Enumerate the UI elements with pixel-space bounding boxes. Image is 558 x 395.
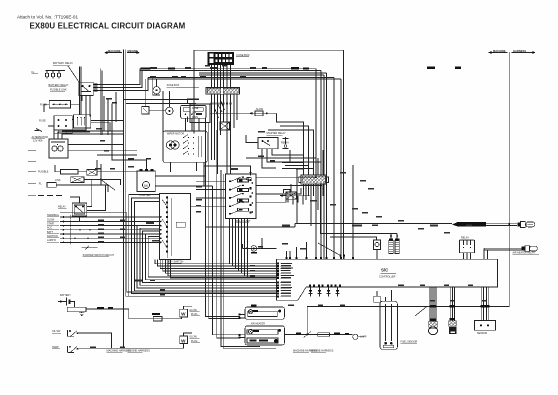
wire: pointer to relay [68, 66, 79, 82]
label: alternator [32, 136, 49, 143]
wire: key switch row BATT [47, 231, 162, 236]
wire: controller feed row 6 [244, 219, 246, 276]
relay R1 (battery relay) [79, 82, 94, 95]
svg-text:LINK: LINK [55, 179, 61, 182]
glow plug W1 [180, 306, 192, 317]
label: W1 [189, 309, 200, 316]
starter relay contacts right [283, 137, 289, 149]
svg-text:HARNESS: HARNESS [513, 49, 526, 53]
controller bottom pin row [309, 285, 341, 287]
wire: bus line 4 [148, 78, 341, 80]
svg-text:GLOW: GLOW [189, 309, 197, 312]
svg-text:RELAY: RELAY [461, 237, 469, 240]
wire: relay to bus [93, 69, 140, 85]
svg-text:ENGINE HARNESS: ENGINE HARNESS [128, 350, 151, 353]
svg-text:CONTROLLER: CONTROLLER [379, 276, 396, 279]
wire: vertical x=316 [315, 69, 317, 260]
wire: top loop left vertical x=194 [193, 50, 195, 133]
wire: pressure switch hook cluster [280, 189, 310, 204]
svg-text:STARTER SWITCH CIRCUIT: STARTER SWITCH CIRCUIT [83, 254, 115, 257]
wiper motor assembly WM1 [163, 131, 207, 162]
wire: controller feed row 4 [238, 219, 240, 271]
sensor box SN3 [475, 321, 496, 335]
label: relay output marks [94, 84, 98, 92]
wire: HC top feeds [246, 113, 323, 170]
svg-text:MACHINE: MACHINE [493, 49, 506, 53]
wire: B1 links [71, 103, 80, 105]
sensor square SN2 [449, 327, 457, 334]
wire: machine/engine harness divider (left) [122, 50, 124, 348]
wire: key switch row GLOW [47, 218, 162, 223]
svg-text:TEMP: TEMP [52, 346, 59, 349]
wire: CN3 right [84, 180, 121, 185]
label: extra wire code blobs [90, 65, 487, 348]
label: key row junction dots [74, 221, 97, 239]
wire: center bundle v1 [206, 118, 241, 317]
controller left pin squares [277, 263, 279, 298]
diode D2 [318, 287, 322, 297]
pump solenoid PM1 [389, 234, 393, 254]
shielded cable segment [452, 222, 486, 227]
wire: AH2 left stubs [238, 334, 245, 339]
label: relay unit [236, 220, 251, 223]
svg-text:IGNITION: IGNITION [47, 235, 58, 238]
svg-text:AIR HEATER: AIR HEATER [251, 323, 265, 326]
svg-text:SENSOR: SENSOR [477, 332, 487, 335]
svg-text:FUEL SENSOR: FUEL SENSOR [401, 340, 418, 343]
svg-text:ENGINE HARNESS: ENGINE HARNESS [311, 349, 334, 352]
lamp H2 (circle) [166, 107, 173, 114]
relay R2 inner box + ties [74, 180, 105, 214]
label: small wire codes [96, 128, 472, 250]
label: machine/engine harness bottom [107, 350, 151, 353]
solenoid valve SV1 [374, 240, 381, 259]
wire: relay unit right outputs [256, 176, 316, 178]
svg-text:W: W [181, 312, 186, 317]
svg-text:START: START [47, 222, 55, 225]
diode D1 [309, 287, 313, 297]
svg-text:ACC: ACC [47, 227, 52, 230]
wire: cable to plug1 [486, 222, 517, 224]
wire: staircase wire 4 [134, 202, 276, 291]
wire: bus line 1 [140, 68, 316, 70]
horn H1 (circle) [153, 79, 160, 94]
connector CB1 (hatched) [429, 321, 437, 327]
wire: AH1 left stubs [238, 314, 245, 320]
starter motor M1 [137, 169, 155, 192]
wire: vertical x=321 [320, 70, 322, 259]
component B1 (fuse holder) [49, 101, 70, 109]
wire: starter feeds [123, 160, 146, 169]
wire: staircase wire 3 [137, 226, 276, 289]
wire: strip drop jogs [215, 100, 225, 118]
wire: fuse box drops [211, 64, 213, 87]
wire: center bundle v5 [221, 170, 260, 346]
wire: sensor cable y=226 [206, 226, 296, 228]
wire: controller feed row 5 [241, 219, 243, 274]
label: blobs on strip drops [172, 76, 232, 105]
connector CB2 (hatched) [449, 321, 456, 327]
label: RT1 [460, 237, 474, 240]
svg-text:SLOW: SLOW [256, 108, 264, 111]
glow indicator GI1 [353, 334, 367, 339]
svg-text:LAMP R: LAMP R [47, 239, 56, 242]
wire: key switch row IGNITION [47, 235, 162, 240]
wire: diagonal jog [100, 179, 115, 190]
plug P1 [517, 221, 534, 227]
wire: staircase wire 8 [148, 237, 276, 278]
wire: upper-left mesh additions [62, 92, 199, 185]
svg-text:FL: FL [39, 183, 43, 186]
svg-text:W: W [181, 338, 186, 343]
svg-text:PLUG: PLUG [191, 313, 198, 316]
sensor round SN1 [429, 327, 438, 335]
svg-text:BATTERY RELAY: BATTERY RELAY [53, 62, 73, 65]
wire: center bundle v4 [217, 130, 240, 338]
svg-text:FUSE BOX: FUSE BOX [237, 53, 250, 57]
wire: RB1 pins [262, 149, 276, 168]
label: under-rows caption [83, 254, 115, 257]
glow plug W2 [180, 333, 192, 348]
controller S/C box [276, 259, 497, 300]
svg-text:BATTERY: BATTERY [60, 294, 71, 297]
inline fuse F3 [153, 316, 162, 321]
svg-text:MAIN: MAIN [192, 116, 198, 119]
wire: pump feeds [321, 233, 398, 235]
wire: HC top feed horizontals [282, 163, 314, 224]
diode D3 [327, 287, 331, 297]
battery BAT1 [58, 294, 74, 307]
wire: center bundle v6 [223, 174, 276, 348]
connector strip CN1 (hatched) [206, 88, 240, 95]
svg-text:PLUG: PLUG [191, 340, 198, 343]
connector CN3 [71, 177, 84, 183]
label: TB1 [401, 340, 418, 343]
wire: B3b outputs [91, 120, 124, 122]
air heater AH2 [245, 326, 284, 345]
wire: bundle1 verticals [429, 287, 431, 321]
wire: RT1 pins to controller [463, 253, 465, 260]
label: W2 [189, 336, 200, 343]
relay R2 (safety relay) [58, 203, 87, 216]
wire: B2 links right [72, 119, 73, 121]
wire: key switch row LAMP R [47, 239, 162, 244]
svg-text:FUSIBLE: FUSIBLE [38, 171, 49, 174]
label: HC bottom junction dots [303, 188, 324, 190]
relay unit RU1 [226, 174, 257, 219]
controller top stubs [285, 251, 287, 259]
label: wire gauge marks on bus [141, 66, 462, 69]
svg-text:ALTERNATOR: ALTERNATOR [32, 136, 49, 139]
wire: vertical x=326.5 [326, 73, 328, 259]
component B2 (terminal block) [54, 116, 72, 134]
label: P2 underline [513, 252, 540, 255]
wire: link row [78, 171, 87, 173]
relay unit coils [238, 177, 254, 212]
label: F3 [152, 313, 160, 315]
wire: diagonal off sensor bus [415, 306, 427, 316]
label: harness divider arrows top left [104, 49, 140, 54]
svg-text:FUSE: FUSE [192, 107, 199, 110]
svg-text:TERMINAL: TERMINAL [47, 214, 60, 217]
wire: cluster ties [149, 109, 166, 111]
fusible link FL2 [67, 307, 86, 312]
sender SW3 (water temp) [67, 346, 78, 353]
wire: staircase wire 1 [143, 231, 277, 283]
label: dashes row [38, 195, 62, 197]
wire: key switch to relay unit [196, 180, 226, 182]
wire: controller feed row 7 [247, 219, 249, 279]
wire: strip extra drops [233, 94, 235, 128]
svg-text:M: M [144, 183, 147, 188]
svg-text:MACHINE: MACHINE [108, 49, 121, 53]
label: relay labels left [49, 84, 69, 92]
label: controller internal pin texts [281, 263, 294, 297]
wire: center bundle v3 [212, 186, 240, 335]
wire: staircase wire 7 [145, 234, 276, 280]
svg-text:BATTERY RELAY: BATTERY RELAY [49, 84, 69, 87]
svg-text:Attach to Vol. No. :TT196E-01: Attach to Vol. No. :TT196E-01 [17, 15, 78, 20]
key switch SW1 [160, 194, 191, 260]
svg-text:FUSE BOX: FUSE BOX [167, 84, 180, 87]
buzzer BZ1 [243, 238, 277, 254]
wire: R2 stubs [70, 197, 80, 203]
flasher unit FU1 [181, 105, 206, 118]
svg-text:FUSE: FUSE [39, 120, 46, 123]
wire: P2 corner into controller top [483, 248, 485, 259]
wire: right divider turn to left at y=306.4 [307, 305, 509, 307]
wire: left row corner down x=126.8 [60, 213, 276, 292]
label: harness divider arrows top right [488, 49, 536, 54]
controller left pin labels [281, 264, 292, 297]
wire: main cable pair through relay [79, 67, 81, 115]
fuse box FB1 [208, 52, 250, 64]
connector HC1 (hatched) [299, 175, 329, 184]
wire: diagonal into controller top [318, 243, 341, 256]
wire: short row with diagonal [82, 246, 98, 251]
wire: connector strip drops [211, 94, 213, 160]
wire: inner loop line y=73 [199, 72, 327, 74]
plug P2 [522, 246, 538, 252]
wire: center bundle v2 [209, 122, 240, 319]
fuel sender unit TB1 [380, 301, 397, 349]
air heater AH1 [245, 305, 284, 320]
wire: controller feed row 2 [232, 219, 234, 267]
relay RS1 [142, 107, 149, 114]
alternator G1 [49, 139, 68, 158]
wire: top loop right vertical x=343.5 down to controller [343, 50, 345, 259]
wire: CN4 right [56, 185, 108, 192]
wire: bus line 3 [148, 77, 334, 79]
svg-text:FUSE: FUSE [40, 103, 47, 106]
wire: key switch row START [47, 222, 162, 227]
wire: battery main to glow plugs [86, 309, 182, 319]
wire: vertical x=353 from connector area [352, 165, 354, 259]
wire: stub pair into box top [340, 256, 342, 259]
wire: vertical x=341 [340, 79, 342, 259]
junction cross mark [304, 306, 311, 337]
wire: controller feed row 3 [235, 219, 237, 269]
inline resistor RES1 [318, 333, 330, 336]
svg-text:GLOW: GLOW [47, 218, 55, 221]
wire: bundle2 verticals [449, 287, 451, 321]
wire: alternator tops [54, 95, 86, 138]
ground mark lower-left [35, 129, 43, 132]
wire: heater feed line [284, 334, 353, 336]
wire: relay drops [81, 95, 83, 101]
svg-text:STARTER RELAY: STARTER RELAY [266, 132, 286, 135]
inline fuse F2 with arrow [210, 108, 276, 116]
svg-text:RELAY: RELAY [58, 206, 66, 209]
svg-text:FL: FL [32, 71, 35, 74]
pump solenoid PM2 [395, 234, 399, 254]
wire: flasher drops to assembly [186, 118, 200, 131]
wire: heater lamp tail [358, 336, 364, 338]
connector CX2 on bundle [220, 122, 230, 130]
diode D4 [336, 287, 340, 297]
wire: top loop horizontal y=50 [194, 49, 344, 51]
fuse block B3b [74, 115, 91, 128]
svg-text:AIR HEATER RELAY: AIR HEATER RELAY [513, 252, 536, 255]
label: wire marks [296, 333, 349, 335]
wire: harness divider (right) [508, 52, 510, 306]
fusible link comb FL0 [46, 62, 74, 78]
label: key switch [168, 261, 184, 264]
label: bundle crossing blobs [429, 305, 489, 321]
sender SW2 (oil pressure) [67, 330, 78, 337]
wire: vertical x=324 [323, 75, 325, 259]
wire: vertical x=334 [333, 78, 335, 260]
label: starter relay caption [266, 132, 286, 135]
relay RT1 (above controller) [460, 240, 475, 252]
wire: staircase wire 6 [129, 195, 277, 297]
wire: TB1 tops [385, 297, 387, 301]
wire: bottom sender line [79, 347, 184, 349]
wire: controller feed row 1 [229, 219, 231, 264]
svg-text:WIPER MOTOR: WIPER MOTOR [167, 133, 185, 136]
wire: inner loop line y=75 [199, 74, 324, 76]
wire: relay unit top feed [204, 166, 251, 176]
wire: alternator outputs [68, 144, 124, 146]
svg-text:12V 40A: 12V 40A [33, 140, 43, 143]
wire: HC top stubs [303, 170, 305, 175]
fusible link FL1 [38, 169, 78, 174]
svg-text:OIL SW: OIL SW [52, 330, 61, 333]
wire: staircase wire 5 [132, 198, 277, 294]
wire: staircase wire 2 [140, 228, 277, 285]
svg-text:BATT: BATT [47, 231, 53, 234]
svg-text:GLOW: GLOW [189, 336, 197, 339]
component TC1 [374, 291, 380, 302]
connector CN2 [87, 169, 97, 175]
svg-text:FUSIBLE LINK: FUSIBLE LINK [50, 89, 67, 92]
label: left tick x32 y72 [32, 71, 39, 74]
label: horn label [167, 84, 180, 107]
label: harness labels center bottom [293, 349, 334, 352]
ground GND1 [79, 312, 84, 316]
label: SW3 [52, 346, 60, 349]
wire: assembly stubs [170, 162, 172, 172]
wire: bus line 2 [140, 69, 321, 71]
wire: key switch row ACC [47, 227, 162, 232]
connector CN4 small [39, 183, 57, 188]
label: left margin ticks [28, 151, 36, 196]
svg-text:EX80U ELECTRICAL CIRCUIT DIAGR: EX80U ELECTRICAL CIRCUIT DIAGRAM [30, 22, 186, 31]
wire: HC drops [303, 184, 305, 196]
svg-text:30A: 30A [192, 112, 197, 115]
wire: key switch row TERMINAL [47, 214, 162, 219]
svg-text:KEY SWITCH: KEY SWITCH [168, 261, 184, 264]
wire: SW2 to bottom line [79, 333, 112, 348]
junction box K1 [190, 104, 210, 123]
svg-text:ENGINE: ENGINE [128, 49, 139, 53]
plug P2 wire pair [484, 247, 522, 249]
relay RB1 [258, 138, 289, 149]
component X1 [280, 184, 296, 199]
label: SW2 [52, 330, 61, 333]
wire: divider pair lower turn [126, 295, 277, 297]
wire: vertical pair x~100 [99, 69, 101, 135]
wire: battery wire marks [97, 307, 113, 309]
wire: bundle3 verticals [480, 287, 482, 321]
svg-text:S/C: S/C [381, 268, 389, 273]
